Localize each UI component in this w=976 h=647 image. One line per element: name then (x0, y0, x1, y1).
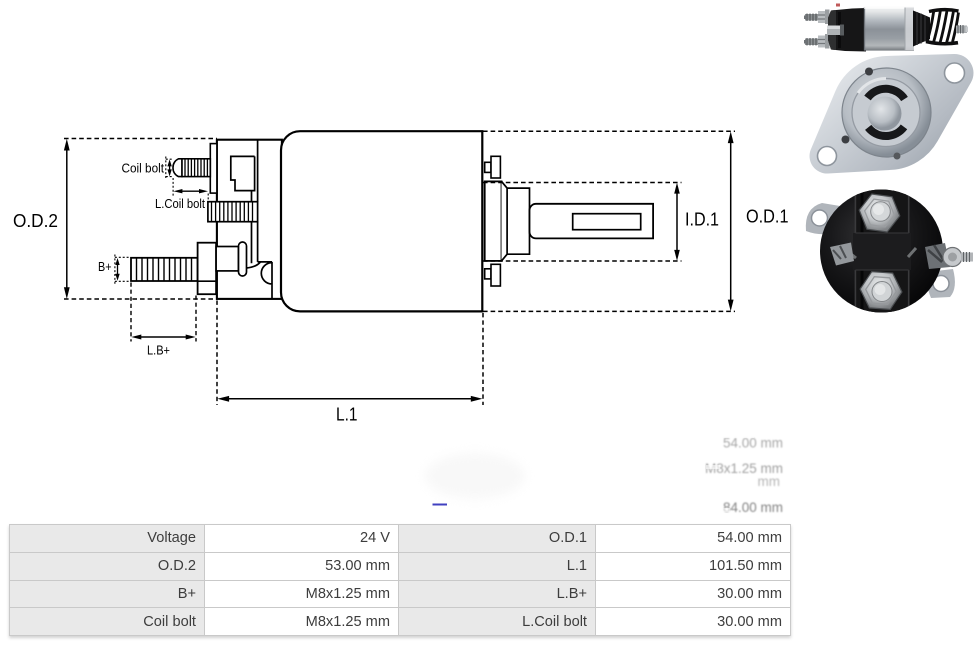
plunger clip bottom (485, 269, 491, 279)
O.D.1 dashed top (483, 130, 735, 132)
flange hole bottom-left (818, 147, 837, 166)
cap top stud (859, 194, 900, 232)
flange hole top-right (945, 63, 965, 83)
coil bolt C1 (173, 159, 182, 177)
svg-text:L.B+: L.B+ (147, 343, 170, 358)
B+ dim arrows (115, 258, 119, 265)
photo1 black cap (828, 8, 866, 52)
plunger clip top (485, 162, 491, 172)
spec table (9, 524, 791, 636)
photo1 red speck (836, 4, 840, 7)
photo1 chrome cylinder (864, 7, 914, 51)
cap ear top-left (806, 203, 843, 234)
L.coil bolt extension dotted (173, 178, 208, 201)
plunger flange face (485, 181, 502, 261)
photo1 top stud nut (818, 11, 826, 23)
plunger shaft (530, 204, 654, 239)
O.D.1 dimension line (730, 136, 732, 307)
photo1 spring (926, 10, 959, 44)
svg-text:O.D.2: O.D.2 (13, 211, 58, 231)
coil bolt dim arrow line (169, 163, 171, 174)
L.B+ extension dashed right (195, 296, 197, 342)
plunger flange second section (502, 181, 530, 261)
flange boss (842, 68, 931, 157)
photo: mounting flange plate (810, 54, 974, 174)
flange dark ring arcs (868, 89, 905, 99)
I.D.1 dashed bottom (483, 260, 682, 262)
svg-text:O.D.1: O.D.1 (746, 207, 789, 227)
L.1 extension dashed right (482, 313, 484, 405)
dimension lines (64, 131, 735, 405)
dimension labels (13, 162, 789, 425)
O.D.2 bottom extension dashed (64, 298, 217, 300)
B+ dim arrow line (117, 262, 119, 276)
L.B+ extension dashed left (130, 283, 132, 342)
L.1 extension dashed left (216, 301, 218, 406)
svg-text:L.Coil bolt: L.Coil bolt (155, 197, 205, 211)
B+ insulator washer (239, 242, 247, 276)
O.D.1 arrows (728, 131, 734, 143)
photo: solenoid cap rear view (806, 188, 973, 314)
flange center dome (868, 97, 902, 131)
I.D.1 arrows (674, 183, 680, 194)
I.D.1 dimension line (676, 187, 678, 256)
O.D.2 dimension line (66, 143, 68, 295)
B+ dim dotted box (115, 255, 130, 285)
flange plate (810, 54, 974, 174)
L.B+ arrows (131, 335, 141, 340)
solenoid body (281, 131, 482, 311)
svg-text:84.00 mm: 84.00 mm (723, 500, 783, 515)
O.D.2 top extension dashed (64, 138, 217, 140)
svg-text:B+: B+ (98, 259, 112, 274)
flange rim tabs (865, 68, 873, 76)
coil bolt insulator plate (210, 144, 217, 194)
coil bolt dim dotted box (166, 157, 174, 180)
photo1 rubber boot (913, 11, 930, 47)
shaft slot (573, 214, 641, 230)
ghost spec text remnants (705, 436, 783, 516)
coil bolt dim arrows (167, 159, 171, 166)
boot fillet at bracket bottom right (247, 262, 273, 299)
blue dash artifact (433, 504, 448, 506)
B+ threaded stud (131, 258, 198, 281)
L.coil bolt arrows (173, 189, 182, 193)
L.coil bolt threaded terminal (208, 202, 258, 222)
photo1 bottom stud thread (805, 39, 819, 46)
cap body (820, 190, 943, 313)
cap ear bottom-right (927, 269, 955, 298)
svg-text:Coil bolt: Coil bolt (122, 162, 165, 176)
photo1 bottom stud nut (818, 36, 826, 48)
cap left tab (830, 243, 854, 266)
bracket internal vertical rib (257, 140, 259, 262)
svg-text:I.D.1: I.D.1 (685, 210, 719, 230)
svg-text:L.1: L.1 (336, 405, 358, 425)
I.D.1 dashed top (483, 182, 682, 184)
B+ hex nut (198, 243, 217, 295)
arrowheads (64, 131, 734, 401)
cap bottom stud (860, 272, 902, 310)
photo1 middle terminal (827, 26, 843, 36)
front bracket (217, 140, 282, 299)
cap right connector (925, 243, 950, 269)
L.coil bolt dimension line (177, 190, 205, 192)
photo: solenoid side view (804, 4, 968, 52)
faint smudge (425, 453, 525, 499)
L.1 arrows (217, 396, 229, 402)
coil bolt threads hatch (185, 159, 207, 177)
bracket internal step (coil terminal support) (231, 156, 255, 263)
photo1 end stud (956, 26, 967, 34)
O.D.2 arrows (64, 139, 70, 151)
O.D.1 dashed bottom (483, 310, 735, 312)
svg-text:mm: mm (758, 474, 781, 489)
L.1 dimension line (222, 398, 478, 400)
B+ terminal block (216, 247, 238, 271)
photo1 top stud thread (805, 14, 819, 21)
L.B+ dimension line (136, 336, 192, 338)
